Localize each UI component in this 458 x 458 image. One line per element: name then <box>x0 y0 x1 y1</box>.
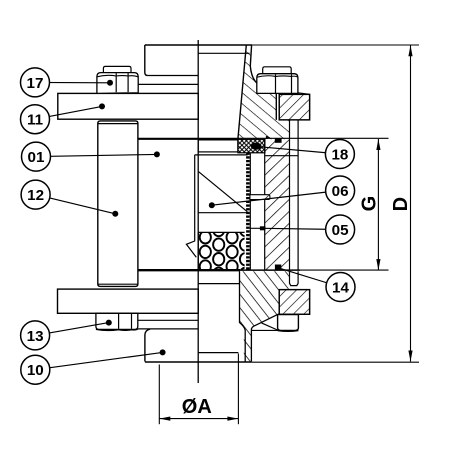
dimension D bottom extension line <box>251 361 419 363</box>
clamp bush shoulder line <box>265 155 298 157</box>
body cone outer profile edge <box>250 45 276 120</box>
flange shoulder line at nut <box>251 329 298 331</box>
balloon callout 13 <box>21 321 50 350</box>
leader line for item 18 <box>256 146 340 154</box>
top frame plate (item 11) <box>58 93 198 119</box>
leader line for item 06 <box>212 191 340 206</box>
small seal block (black) on joint line <box>275 138 282 143</box>
balloon callout 10 <box>21 355 50 384</box>
bottom frame plate <box>58 289 199 313</box>
svg-text:14: 14 <box>332 279 349 296</box>
svg-text:05: 05 <box>332 222 349 239</box>
leader line for item 12 <box>36 195 116 214</box>
leader line for item 05 <box>263 228 340 229</box>
protection tube (item 12) <box>98 121 138 287</box>
dimension ØA line with arrows <box>159 418 238 420</box>
svg-text:01: 01 <box>28 149 45 166</box>
bottom edge of flange / outlet <box>145 361 252 363</box>
packing ring division line <box>250 227 264 229</box>
upper body neck left edge with fillet <box>145 45 148 76</box>
svg-text:ØA: ØA <box>182 396 212 418</box>
flange edge right of nut <box>298 93 310 95</box>
balloon callout 05 <box>326 215 355 244</box>
upper body top edge <box>145 44 252 46</box>
leader line for item 01 <box>36 154 157 156</box>
stud shank left edge <box>289 120 291 270</box>
flange chamfer lower edge <box>262 323 278 330</box>
packing cord column (dashed, item 05 area) <box>246 153 250 270</box>
dimension ØA right extension line <box>237 354 239 425</box>
dimension G top extension line <box>238 137 389 139</box>
dimension G line with arrows <box>377 139 379 270</box>
bore step line (lower) <box>198 352 238 354</box>
dimension D top extension line <box>252 44 419 46</box>
washer block section (bottom, hatched square) <box>279 290 309 315</box>
balloon callout 01 <box>22 142 51 171</box>
seal square (black) item 05 pointer <box>260 226 266 230</box>
svg-text:18: 18 <box>331 146 348 163</box>
balloon callout 17 <box>21 68 50 97</box>
glass top edge <box>195 154 248 156</box>
hex nut (bottom right stud) <box>278 315 299 332</box>
upper flange top edge (left, external) <box>148 75 198 77</box>
outlet neck left edge with fillet <box>145 329 150 361</box>
body cone section hatch (item 01) <box>230 40 305 145</box>
bottom flange section hatch (item 10) <box>235 266 315 366</box>
stud end cap above right nut <box>263 67 292 74</box>
hex nut item 17 <box>97 73 138 94</box>
bore step line (upper) <box>198 283 239 285</box>
packing ring inner edge <box>249 153 251 270</box>
svg-text:11: 11 <box>27 112 44 129</box>
balloon callout 18 <box>325 140 354 169</box>
retainer tab on packing ring <box>250 195 270 200</box>
glass diagonal (transparency mark) <box>199 172 248 212</box>
flow arrow (hollow, pointing down) <box>186 155 196 257</box>
clamp bush bottom edge / G bottom extension <box>240 269 300 271</box>
svg-text:06: 06 <box>332 183 349 200</box>
upper flange chamfer edge (left, external) <box>138 83 198 85</box>
balloon callout 11 <box>21 105 50 134</box>
hex nut on top right stud <box>257 74 298 94</box>
svg-text:12: 12 <box>27 187 44 204</box>
bore right wall <box>240 271 246 361</box>
centerline (pipe axis) <box>197 40 199 383</box>
svg-text:17: 17 <box>27 75 44 92</box>
svg-text:13: 13 <box>27 328 44 345</box>
bottom flange chamfer edge (left, external) <box>138 328 198 330</box>
svg-text:10: 10 <box>27 362 44 379</box>
strainer bottom thick edge <box>138 269 240 271</box>
clamp bush section hatch <box>260 135 295 275</box>
stud end slot (bottom) <box>290 271 299 285</box>
leader line for item 11 <box>35 106 102 119</box>
svg-text:G: G <box>358 196 380 212</box>
leader line for item 17 <box>35 81 110 83</box>
strainer basket with perforations <box>198 224 251 280</box>
joint line arrow mark <box>266 136 270 139</box>
stud end cap above nut 17 <box>103 66 131 72</box>
leader line for item 14 <box>278 268 340 287</box>
svg-text:D: D <box>390 197 412 211</box>
bottom flange top edge (left, external) <box>138 319 198 321</box>
stud shank right edge <box>297 120 299 270</box>
leader line for item 10 <box>35 352 162 369</box>
body cone inner slant edge <box>238 45 246 139</box>
recess box above glass (right of CL) <box>198 140 238 152</box>
balloon callout 12 <box>21 180 50 209</box>
dimension ØA left extension line <box>158 365 160 425</box>
leader line for item 13 <box>35 323 109 336</box>
balloon callout 06 <box>326 176 355 205</box>
gasket 18 cross-hatched box <box>238 139 265 153</box>
hex nut item 13 <box>96 313 138 330</box>
glass bottom edge <box>198 212 247 214</box>
bottom flange lower edge (right) <box>278 313 310 315</box>
outlet neck outer wall (right) <box>251 314 278 361</box>
washer block section (top, hatched square) <box>279 94 309 120</box>
packing ring outer edge <box>264 139 266 269</box>
upper body inner bore top edge (right of CL) <box>198 52 249 54</box>
seal square (black) item 14 pointer <box>275 265 281 271</box>
dimension D line with arrows <box>410 45 412 361</box>
balloon callout 14 <box>326 273 355 302</box>
glass seat thick edge (left of gasket) <box>138 138 238 140</box>
